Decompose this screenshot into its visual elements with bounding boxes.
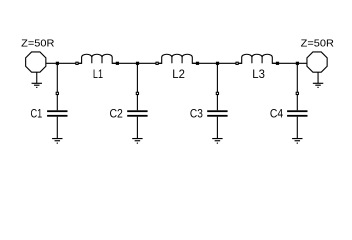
wire C2 to ground [136, 117, 138, 139]
junction node N4 [296, 62, 299, 65]
capacitor C4 [287, 110, 307, 116]
junction node N2 [136, 62, 139, 65]
wire C1 to ground [56, 117, 58, 139]
pin C4.1 (open terminal) [296, 92, 299, 95]
capacitor C1 [47, 110, 67, 116]
svg-text:L3: L3 [252, 67, 265, 81]
svg-text:C3: C3 [190, 106, 203, 120]
junction node N3 [216, 62, 219, 65]
wire P2 to ground [317, 72, 319, 83]
wire L3 end to source P2 (through pin L3.2, node N4) [272, 62, 307, 64]
pin L3.1 (open terminal) [235, 62, 238, 65]
ground (C1) [52, 139, 62, 144]
source port P1 (octagon symbol) [26, 52, 46, 72]
svg-text:L1: L1 [93, 67, 103, 81]
svg-text:C4: C4 [270, 106, 284, 120]
junction node N1 [56, 62, 59, 65]
pin L2.1 (open terminal) [155, 62, 158, 65]
capacitor C3 [207, 110, 227, 116]
ground (right source) [313, 83, 323, 88]
source port P2 (octagon symbol) [307, 52, 327, 72]
wire P1 to ground [36, 72, 38, 83]
svg-text:C2: C2 [110, 106, 124, 120]
ground (C3) [212, 139, 222, 144]
pin L2.2 (filled terminal) [196, 62, 199, 65]
wire L2 end to coil L3 (through pin L2.2, node N3, pin L3.1) [192, 62, 241, 64]
wire L1 end to coil L2 (through pin L1.2, node N2, pin L2.1) [112, 62, 162, 64]
pin C3.1 (open terminal) [216, 92, 219, 95]
wire C3 to ground [216, 117, 218, 139]
pin C1.1 (open terminal) [56, 92, 59, 95]
svg-text:Z=50R: Z=50R [301, 39, 334, 50]
svg-text:Z=50R: Z=50R [21, 39, 54, 50]
ground (C2) [132, 139, 142, 144]
inductor L1 [78, 54, 117, 63]
wire node N4 to capacitor C4 [296, 63, 298, 110]
wire node N2 to capacitor C2 [136, 63, 138, 110]
pin L3.2 (filled terminal) [276, 62, 279, 65]
ground (C4) [292, 139, 302, 144]
svg-text:C1: C1 [31, 106, 43, 120]
pin L1.1 (open terminal) [75, 62, 78, 65]
capacitor C2 [127, 110, 147, 116]
svg-text:L2: L2 [172, 67, 185, 81]
pin L1.2 (filled terminal) [116, 62, 119, 65]
ground (left source) [32, 83, 42, 88]
inductor L2 [159, 54, 198, 63]
wire node N3 to capacitor C3 [216, 63, 218, 110]
wire node N1 to capacitor C1 [56, 63, 58, 110]
pin C2.1 (open terminal) [136, 92, 139, 95]
inductor L3 [239, 54, 278, 63]
wire P1 to coil L1 (through node N1, pin L1.1) [46, 62, 82, 64]
wire C4 to ground [296, 117, 298, 139]
